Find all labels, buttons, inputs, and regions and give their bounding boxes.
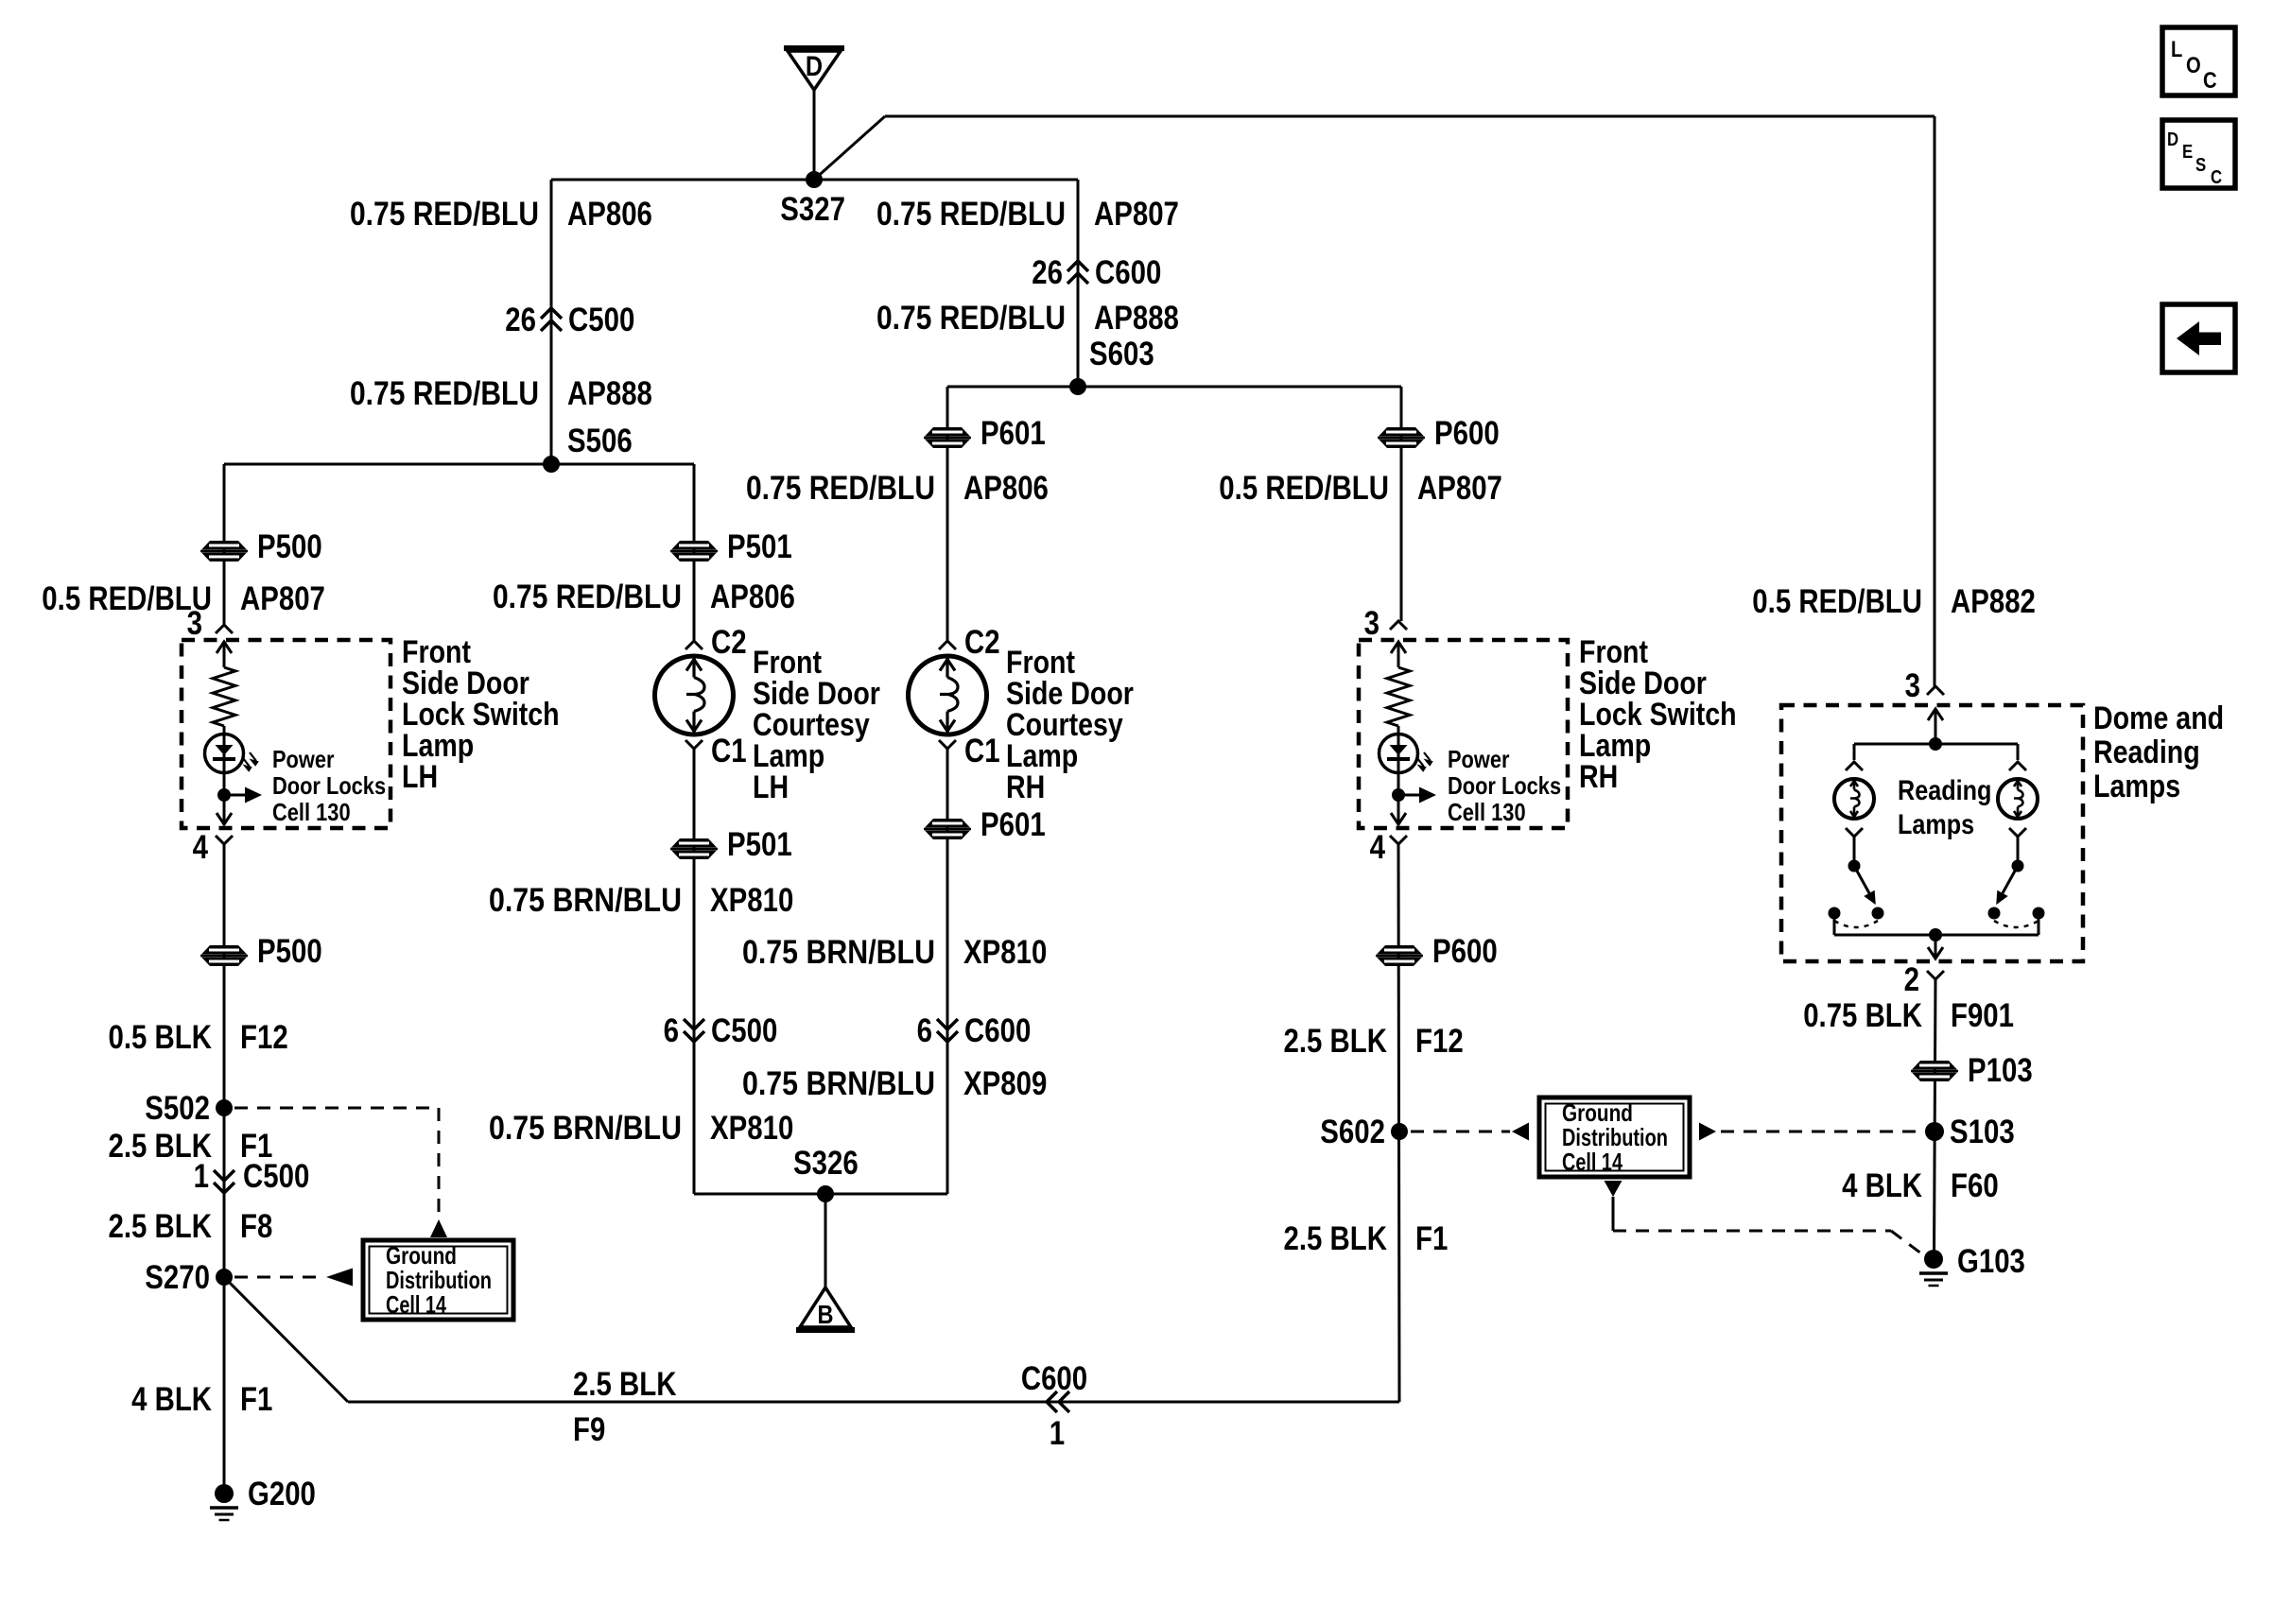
svg-text:4 BLK: 4 BLK xyxy=(131,1381,212,1418)
svg-text:6: 6 xyxy=(664,1012,679,1049)
svg-text:P500: P500 xyxy=(257,933,322,970)
svg-text:C: C xyxy=(2211,167,2222,188)
svg-text:S502: S502 xyxy=(145,1090,210,1127)
svg-text:F9: F9 xyxy=(573,1411,605,1448)
svg-text:26: 26 xyxy=(505,302,536,338)
svg-text:F12: F12 xyxy=(240,1019,288,1056)
svg-text:C: C xyxy=(2203,68,2217,94)
svg-text:S327: S327 xyxy=(780,191,845,228)
svg-text:26: 26 xyxy=(1032,254,1063,291)
svg-text:0.75 RED/BLU: 0.75 RED/BLU xyxy=(746,470,935,507)
svg-text:RH: RH xyxy=(1006,769,1045,805)
svg-text:Lamps: Lamps xyxy=(1898,809,1974,840)
svg-text:P600: P600 xyxy=(1432,933,1498,970)
svg-text:S: S xyxy=(2195,155,2206,176)
svg-text:F8: F8 xyxy=(240,1208,272,1245)
svg-text:0.75 RED/BLU: 0.75 RED/BLU xyxy=(493,579,682,615)
svg-text:3: 3 xyxy=(1364,605,1379,642)
svg-text:G103: G103 xyxy=(1957,1243,2025,1280)
svg-text:XP809: XP809 xyxy=(963,1065,1047,1102)
svg-text:2.5 BLK: 2.5 BLK xyxy=(109,1208,213,1245)
svg-text:S506: S506 xyxy=(567,423,633,459)
svg-text:P103: P103 xyxy=(1968,1052,2033,1089)
svg-text:C1: C1 xyxy=(964,733,1000,769)
svg-text:E: E xyxy=(2182,142,2193,163)
svg-text:Reading: Reading xyxy=(2093,734,2200,770)
svg-text:0.5 RED/BLU: 0.5 RED/BLU xyxy=(1219,470,1389,507)
svg-text:G200: G200 xyxy=(248,1476,316,1512)
svg-text:AP806: AP806 xyxy=(567,196,652,233)
svg-text:0.75 BRN/BLU: 0.75 BRN/BLU xyxy=(742,934,935,971)
svg-text:1: 1 xyxy=(1050,1415,1065,1452)
svg-text:4 BLK: 4 BLK xyxy=(1842,1167,1922,1204)
svg-text:6: 6 xyxy=(917,1012,932,1049)
svg-text:RH: RH xyxy=(1579,759,1618,795)
svg-text:AP888: AP888 xyxy=(567,375,652,412)
svg-text:Dome and: Dome and xyxy=(2093,700,2224,736)
svg-text:Reading: Reading xyxy=(1898,775,1991,806)
svg-text:AP807: AP807 xyxy=(240,580,325,617)
svg-text:1: 1 xyxy=(194,1158,209,1195)
svg-text:L: L xyxy=(2171,37,2182,62)
svg-text:S326: S326 xyxy=(793,1145,859,1182)
svg-text:0.75 BRN/BLU: 0.75 BRN/BLU xyxy=(489,882,682,919)
svg-text:0.75 RED/BLU: 0.75 RED/BLU xyxy=(350,375,539,412)
svg-text:2.5 BLK: 2.5 BLK xyxy=(1284,1220,1388,1257)
svg-text:F901: F901 xyxy=(1951,997,2014,1034)
svg-text:C600: C600 xyxy=(1095,254,1161,291)
svg-text:0.5 RED/BLU: 0.5 RED/BLU xyxy=(1752,583,1922,620)
svg-text:Cell 14: Cell 14 xyxy=(1562,1148,1622,1176)
svg-text:S103: S103 xyxy=(1950,1114,2015,1150)
svg-text:2: 2 xyxy=(1904,961,1919,998)
svg-text:Door Locks: Door Locks xyxy=(272,771,386,800)
svg-text:0.75 BLK: 0.75 BLK xyxy=(1803,997,1922,1034)
svg-text:Cell 14: Cell 14 xyxy=(386,1290,446,1319)
svg-text:0.75 RED/BLU: 0.75 RED/BLU xyxy=(876,196,1066,233)
svg-text:2.5 BLK: 2.5 BLK xyxy=(1284,1023,1388,1060)
svg-text:0.75 BRN/BLU: 0.75 BRN/BLU xyxy=(742,1065,935,1102)
svg-text:AP882: AP882 xyxy=(1951,583,2036,620)
svg-text:Cell 130: Cell 130 xyxy=(1448,798,1526,826)
svg-text:S603: S603 xyxy=(1089,336,1154,372)
svg-text:Power: Power xyxy=(272,745,335,773)
svg-text:0.75 RED/BLU: 0.75 RED/BLU xyxy=(876,300,1066,337)
svg-text:Power: Power xyxy=(1448,745,1510,773)
svg-text:C500: C500 xyxy=(568,302,634,338)
svg-text:D: D xyxy=(806,51,823,82)
svg-text:B: B xyxy=(818,1300,834,1329)
svg-text:C500: C500 xyxy=(711,1012,777,1049)
svg-text:P501: P501 xyxy=(727,826,792,863)
svg-text:4: 4 xyxy=(193,829,209,866)
svg-text:Cell 130: Cell 130 xyxy=(272,798,351,826)
svg-text:S602: S602 xyxy=(1320,1114,1385,1150)
svg-text:C2: C2 xyxy=(964,624,1000,661)
svg-text:0.5 BLK: 0.5 BLK xyxy=(109,1019,213,1056)
svg-text:AP806: AP806 xyxy=(710,579,795,615)
svg-text:D: D xyxy=(2167,130,2178,150)
svg-text:F12: F12 xyxy=(1415,1023,1464,1060)
svg-text:P500: P500 xyxy=(257,528,322,565)
svg-text:C600: C600 xyxy=(1021,1360,1087,1397)
svg-text:4: 4 xyxy=(1370,829,1386,866)
svg-text:LH: LH xyxy=(402,759,438,795)
svg-text:O: O xyxy=(2186,53,2201,78)
svg-text:AP888: AP888 xyxy=(1094,300,1179,337)
svg-text:AP806: AP806 xyxy=(963,470,1049,507)
svg-text:0.75 RED/BLU: 0.75 RED/BLU xyxy=(350,196,539,233)
svg-text:F60: F60 xyxy=(1951,1167,1999,1204)
svg-text:XP810: XP810 xyxy=(710,1110,793,1147)
svg-text:3: 3 xyxy=(187,605,202,642)
svg-text:LH: LH xyxy=(753,769,789,805)
svg-text:F1: F1 xyxy=(240,1381,272,1418)
svg-text:Door Locks: Door Locks xyxy=(1448,771,1561,800)
svg-text:Lamps: Lamps xyxy=(2093,769,2180,804)
svg-text:C500: C500 xyxy=(243,1158,309,1195)
svg-text:XP810: XP810 xyxy=(963,934,1047,971)
svg-text:C2: C2 xyxy=(711,624,747,661)
svg-text:XP810: XP810 xyxy=(710,882,793,919)
svg-text:P501: P501 xyxy=(727,528,792,565)
svg-text:C1: C1 xyxy=(711,733,747,769)
svg-text:3: 3 xyxy=(1905,667,1920,704)
svg-text:P601: P601 xyxy=(980,806,1046,843)
svg-text:AP807: AP807 xyxy=(1094,196,1179,233)
svg-text:AP807: AP807 xyxy=(1417,470,1502,507)
svg-text:C600: C600 xyxy=(964,1012,1031,1049)
svg-text:0.75 BRN/BLU: 0.75 BRN/BLU xyxy=(489,1110,682,1147)
svg-text:F1: F1 xyxy=(1415,1220,1448,1257)
svg-text:2.5 BLK: 2.5 BLK xyxy=(573,1366,677,1403)
svg-text:P600: P600 xyxy=(1434,415,1500,452)
svg-text:P601: P601 xyxy=(980,415,1046,452)
svg-text:S270: S270 xyxy=(145,1259,210,1296)
